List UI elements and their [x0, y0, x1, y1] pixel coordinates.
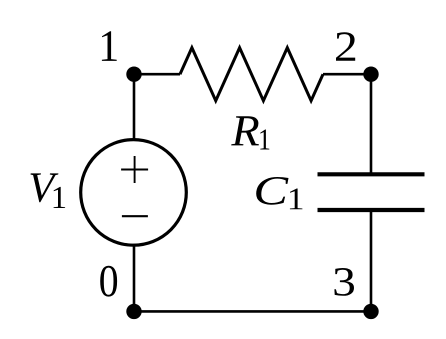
node 1 junction dot — [126, 67, 141, 82]
capacitor C1 bottom plate — [318, 208, 425, 212]
voltage source minus sign — [122, 215, 148, 217]
node 2 junction dot — [363, 67, 378, 82]
wire resistor to node2 — [323, 73, 372, 76]
voltage source plus sign — [121, 156, 148, 183]
label V1 — [31, 173, 66, 208]
wire capacitor bottom plate to node3 — [370, 210, 373, 313]
node label 2 — [336, 32, 355, 61]
node label 3 — [334, 268, 354, 296]
voltage source V1 circle — [81, 140, 187, 246]
resistor R1 — [180, 48, 323, 101]
label C1 — [256, 177, 302, 209]
wire node2 to capacitor top plate — [370, 74, 373, 174]
node label 1 — [102, 31, 117, 61]
node 0 junction dot — [126, 304, 141, 319]
wire node0 to node3 (bottom) — [133, 310, 373, 313]
label R1 — [231, 116, 269, 149]
capacitor C1 top plate — [318, 172, 425, 176]
node 3 junction dot — [363, 304, 378, 319]
wire node1 to resistor — [133, 73, 180, 76]
node label 0 — [100, 266, 117, 297]
wire node1 to voltage source top — [133, 74, 136, 141]
wire voltage source bottom to node0 — [133, 244, 136, 313]
